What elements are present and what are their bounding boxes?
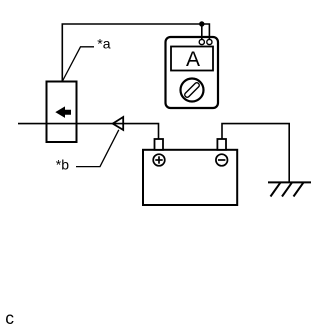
ammeter dial circle	[181, 79, 204, 102]
svg-text:c: c	[5, 308, 14, 328]
svg-text:*b: *b	[56, 156, 69, 172]
battery positive symbol	[153, 154, 165, 166]
wire: main horizontal bus from left edge to battery positive lead	[18, 124, 159, 140]
battery negative symbol	[216, 154, 228, 166]
svg-text:A: A	[186, 48, 200, 71]
battery positive post	[155, 139, 164, 150]
battery: body	[143, 150, 237, 205]
ammeter left terminal	[199, 39, 204, 44]
svg-text:*a: *a	[97, 36, 110, 52]
ammeter right terminal	[207, 39, 212, 44]
solid left-pointing arrow inside component *a	[55, 106, 71, 118]
ground symbol	[268, 182, 311, 196]
wire: stub down to ammeter left terminal	[201, 24, 203, 40]
ammeter display window	[171, 47, 213, 71]
label *a leader line	[63, 47, 95, 81]
ammeter dial knob (rotated slot)	[184, 82, 200, 98]
ammeter A: meter body	[166, 37, 219, 108]
battery negative post	[217, 139, 226, 150]
label *b leader line	[76, 130, 119, 167]
component *a: box with solid left arrow (one-way valve / relay block)	[47, 82, 77, 143]
node *b: open triangle (flow direction marker) on main wire	[113, 117, 124, 130]
junction dot at top wire over ammeter left terminal	[199, 21, 204, 26]
wire: battery negative lead up and right to ground drop	[222, 124, 289, 183]
wire: from component *a top, across the top, down to ammeter right terminal	[62, 24, 209, 82]
